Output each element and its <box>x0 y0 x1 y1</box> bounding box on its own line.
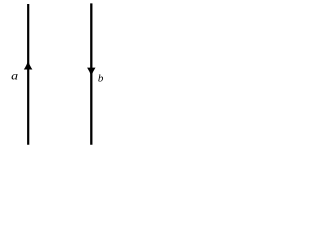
arrowhead down on wire b <box>87 68 95 76</box>
wire b (right vertical line) <box>90 3 92 144</box>
svg-text:b: b <box>98 73 104 85</box>
wire a (left vertical line) <box>27 4 29 145</box>
arrowhead up on wire a <box>24 60 33 69</box>
svg-text:a: a <box>11 68 18 82</box>
